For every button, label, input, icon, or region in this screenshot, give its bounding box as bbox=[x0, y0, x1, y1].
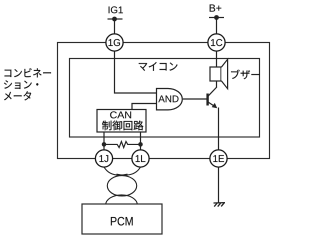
label control circuit bbox=[102, 121, 143, 131]
transistor Q1 bbox=[208, 81, 217, 107]
connector terminal 1C bbox=[208, 34, 225, 51]
combination meter outer box bbox=[58, 43, 270, 159]
wire 1G to AND gate input 1 bbox=[115, 51, 157, 93]
label combination meter line3 bbox=[4, 91, 31, 100]
connector terminal 1G bbox=[106, 34, 123, 51]
buzzer BZ1 bbox=[210, 59, 228, 88]
label combination meter line2 bbox=[4, 80, 38, 89]
junction dot on 1J line bbox=[102, 142, 107, 147]
wire IG1 to 1G bbox=[114, 19, 116, 35]
twisted pair loop 2 bbox=[106, 195, 138, 215]
transistor emitter arrow bbox=[212, 103, 218, 108]
twisted pair loop 1 bbox=[107, 176, 136, 196]
twisted pair wire B bbox=[117, 167, 141, 175]
label IG1 bbox=[109, 6, 123, 13]
label PCM bbox=[111, 217, 133, 226]
label combination meter line1 bbox=[5, 68, 51, 77]
microcomputer inner box bbox=[70, 59, 260, 138]
connector terminal 1L bbox=[132, 150, 149, 167]
junction dot on 1L line bbox=[138, 142, 143, 147]
wire CAN box to 1L bbox=[140, 132, 142, 150]
PCM box bbox=[82, 204, 162, 234]
ground bbox=[214, 203, 226, 207]
wire CAN box to AND gate input 2 bbox=[132, 104, 156, 110]
terminal B+ bbox=[209, 17, 224, 19]
wire AND output to transistor base bbox=[183, 98, 207, 100]
label AND bbox=[158, 95, 178, 102]
AND gate U1 bbox=[157, 89, 183, 110]
connector terminal 1J bbox=[95, 150, 112, 167]
label microcomputer bbox=[139, 62, 178, 71]
wire 1E to ground bbox=[218, 167, 220, 203]
terminal IG1 bbox=[108, 18, 123, 20]
label B+ bbox=[210, 4, 222, 11]
wire CAN box to 1J bbox=[103, 132, 105, 150]
resistor R1 bbox=[104, 142, 141, 148]
CAN control circuit box bbox=[97, 110, 146, 133]
wire transistor emitter to 1E bbox=[218, 108, 220, 151]
label CAN bbox=[110, 111, 131, 118]
wire 1C to buzzer bbox=[216, 51, 218, 67]
connector terminal 1E bbox=[210, 150, 227, 167]
twisted pair wire A bbox=[104, 167, 128, 175]
label buzzer bbox=[231, 70, 260, 79]
wire B+ to 1C bbox=[216, 18, 218, 36]
